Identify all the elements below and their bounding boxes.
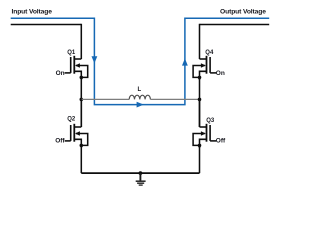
wire left switch-node leg (Q1 source to Q2 drain) bbox=[80, 78, 82, 127]
svg-text:Q3: Q3 bbox=[206, 118, 215, 124]
wire ground rail (bottom) bbox=[81, 172, 199, 174]
node switch left (junction of leg and inductor) bbox=[80, 98, 84, 102]
inductor L bbox=[129, 95, 150, 99]
wire input top (Vin to Q1 drain) bbox=[11, 24, 82, 26]
wire inductor left lead bbox=[81, 98, 129, 100]
arrow current right (bottom blue run) bbox=[137, 102, 144, 108]
wire blue current path (input to output) bbox=[11, 18, 270, 104]
svg-text:Q2: Q2 bbox=[67, 117, 76, 123]
svg-text:L: L bbox=[138, 87, 142, 93]
wire output top (Q4 drain to Vout) bbox=[200, 24, 270, 26]
svg-text:Off: Off bbox=[55, 137, 65, 144]
transistor Q3 bbox=[193, 99, 216, 148]
transistor Q2 bbox=[65, 99, 88, 148]
wire inductor right lead bbox=[150, 98, 199, 100]
wire right switch-node leg (Q4 source to Q3 drain) bbox=[199, 78, 201, 127]
node ground junction bbox=[139, 171, 143, 175]
wire right bottom leg (Q3 source to ground rail) bbox=[199, 145, 201, 173]
arrow current down (left blue leg) bbox=[92, 56, 98, 63]
svg-text:On: On bbox=[216, 70, 225, 77]
arrow current up (right blue leg) bbox=[182, 58, 188, 65]
node switch right (junction of leg and inductor) bbox=[198, 98, 202, 102]
transistor Q4 bbox=[193, 24, 216, 80]
ground bbox=[136, 173, 146, 185]
svg-text:Off: Off bbox=[216, 137, 226, 144]
svg-text:Output Voltage: Output Voltage bbox=[220, 8, 266, 15]
transistor Q1 bbox=[65, 24, 88, 80]
svg-text:Q4: Q4 bbox=[205, 50, 214, 56]
svg-text:Q1: Q1 bbox=[67, 50, 76, 56]
svg-text:Input Voltage: Input Voltage bbox=[12, 8, 53, 15]
wire left bottom leg (Q2 source to ground rail) bbox=[80, 145, 82, 173]
svg-text:On: On bbox=[56, 70, 65, 77]
